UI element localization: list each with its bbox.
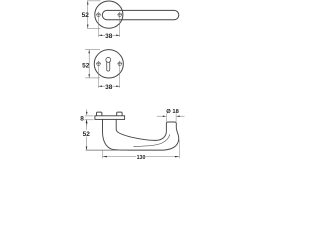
svg-text:52: 52 xyxy=(82,62,90,69)
keyhole top circle xyxy=(106,57,111,62)
dimension line 52 (top view) xyxy=(87,1,89,28)
tick top (52 dim, top view) xyxy=(87,0,101,2)
extension line right (38 dim, top view) xyxy=(119,18,121,37)
handle inner bend line (profile) xyxy=(134,134,170,146)
svg-text:Ø 18: Ø 18 xyxy=(166,109,179,115)
left lug xyxy=(97,112,102,116)
tick bottom (8 dim) xyxy=(85,119,94,121)
tick bottom (52 dim, middle view) xyxy=(85,77,100,79)
tick bottom (52 dim, top view) xyxy=(87,27,101,29)
right screw (top view) xyxy=(118,13,122,17)
handle outline (profile) xyxy=(103,119,179,150)
extension line left (38 dim, middle view) xyxy=(98,67,100,88)
left screw (top view) xyxy=(97,13,101,17)
tick top (8 dim) xyxy=(85,115,94,117)
svg-text:8: 8 xyxy=(80,116,84,123)
svg-text:130: 130 xyxy=(137,155,146,160)
dimension line 52 (middle view) xyxy=(88,50,90,78)
svg-text:52: 52 xyxy=(82,12,90,19)
right screw (middle view) xyxy=(118,62,122,66)
extension line right (130 dim) xyxy=(178,140,180,159)
svg-text:38: 38 xyxy=(105,33,113,40)
dimension line 52 (bottom view) xyxy=(86,119,88,129)
tick top (52 dim, middle view) xyxy=(85,49,100,51)
keyhole slot xyxy=(107,61,110,71)
svg-text:52: 52 xyxy=(83,131,91,138)
left screw (middle view) xyxy=(97,62,101,66)
dimension arrows (diameter 18) xyxy=(157,115,163,117)
escutcheon circle xyxy=(94,50,123,78)
grip bottom line (profile) xyxy=(86,149,128,151)
lever bar stadium (top view) xyxy=(102,10,178,19)
right lug xyxy=(117,112,122,116)
extension lines (diameter 18) xyxy=(165,113,167,122)
dimension 8: line + arrows xyxy=(86,109,88,113)
dimension line 38 (middle view) xyxy=(99,85,106,87)
extension line right (38 dim, middle view) xyxy=(119,67,121,88)
svg-text:38: 38 xyxy=(105,84,113,91)
dimension line 38 (top view) xyxy=(99,34,106,36)
dimension line 130 xyxy=(103,156,137,158)
extension line left (130 dim) xyxy=(102,150,104,158)
extension line left (38 dim, top view) xyxy=(98,18,100,37)
flange bar xyxy=(95,116,125,120)
rosette circle (top view) xyxy=(95,1,123,28)
